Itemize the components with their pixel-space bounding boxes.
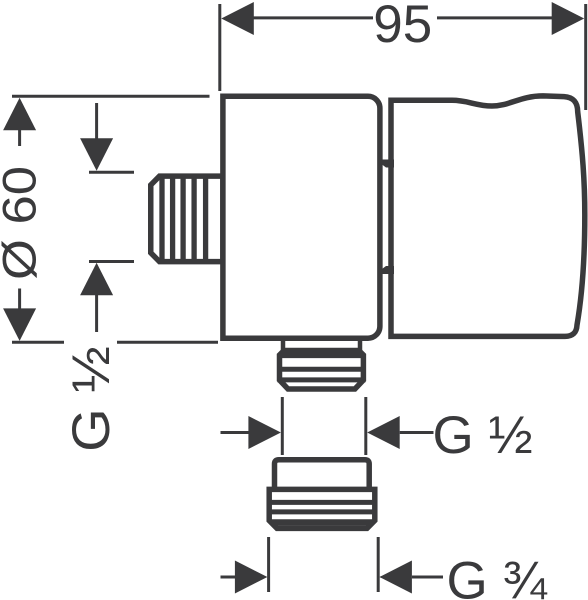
handle knob [391, 96, 585, 337]
outlet union nut [280, 351, 364, 390]
dimension G3/4: right tick [377, 537, 380, 592]
dimension G3/4: left tail line [221, 576, 237, 579]
dimension 95: left arrowhead [221, 2, 254, 35]
dimension G1/2 left: lower arrowhead (up) [80, 263, 113, 296]
outlet nut knurl line 1 [279, 353, 365, 358]
dimension G1/2 left: lower dimension line [95, 295, 98, 332]
dimension G1/2 left: upper arrowhead (down) [80, 138, 113, 171]
dimension G3/4: right tail line [412, 576, 443, 579]
dimension G1/2 bottom: right arrowhead [367, 416, 400, 449]
valve stem upper bridge [380, 160, 394, 168]
dimension G1/2 bottom: right tick [364, 397, 367, 455]
dimension G1/2 bottom: left tick [281, 397, 284, 455]
dimension G1/2 bottom: left tail line [221, 431, 250, 434]
dimension G1/2 bottom: right tail line [400, 431, 434, 434]
dimension O60: upper arrowhead [3, 98, 36, 131]
outlet nut knurl line 3 [278, 377, 366, 382]
dimension G3/4: left arrowhead [235, 561, 268, 594]
hose nut knurl line 3 [271, 519, 373, 526]
inlet knurl line 4 [191, 176, 196, 262]
dimension O60: upper dimension line stub [18, 130, 21, 146]
inlet knurl line 2 [170, 176, 175, 262]
dimension 95: right extension line [584, 4, 587, 110]
dimension G3/4: right arrowhead [379, 561, 412, 594]
outlet nut left stub [281, 338, 286, 350]
svg-text:G ½: G ½ [433, 406, 533, 465]
dimension O60: lower arrowhead [3, 308, 36, 341]
dimension O60: lower dimension line stub [18, 289, 21, 310]
dimension O60: bottom extension line segment A [12, 341, 64, 344]
valve body [223, 96, 380, 338]
inlet knurl line 3 [180, 176, 185, 262]
dimension O60: bottom extension line segment B [117, 341, 218, 344]
inlet knurl line 5 [203, 176, 208, 262]
dimension 95: right arrowhead [552, 2, 585, 35]
dimension G1/2 left: upper dimension line [95, 103, 98, 139]
valve stem lower bridge [380, 266, 394, 274]
dimension G1/2 left: lower tick [89, 260, 134, 263]
knurled wall-inlet fitting [151, 176, 223, 262]
svg-text:G ¾: G ¾ [447, 552, 548, 600]
dimension G1/2 bottom: left arrowhead [248, 416, 281, 449]
dimension O60: top extension line [12, 95, 210, 98]
outlet nut right stub [358, 338, 363, 350]
hose nut knurl line 2 [267, 509, 377, 514]
dimension 95: dimension line left segment [253, 16, 373, 19]
dimension G1/2 left: upper tick [89, 171, 134, 174]
hose union nut skirt [269, 489, 375, 528]
svg-text:95: 95 [373, 0, 432, 54]
dimension G3/4: left tick [267, 537, 270, 592]
svg-text:G ½: G ½ [61, 346, 120, 452]
outlet nut knurl line 2 [278, 367, 366, 372]
hose union nut cap [275, 460, 370, 490]
hose nut knurl line 1 [267, 500, 377, 505]
inlet knurl line 1 [159, 176, 164, 262]
dimension 95: dimension line right segment [437, 16, 552, 19]
dimension 95: left extension line [218, 4, 221, 91]
svg-text:Ø 60: Ø 60 [0, 166, 46, 280]
